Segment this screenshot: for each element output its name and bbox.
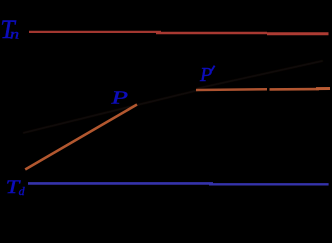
svg-text:P: P [110, 88, 128, 108]
P' level line right tip stroke [316, 87, 330, 90]
rising parcel path (orange diagonal to P) [25, 105, 137, 170]
svg-text:d: d [19, 184, 26, 198]
Td isotherm line (blue, right stroke) [209, 183, 329, 185]
Tn isotherm line (dark red, middle stroke) [156, 32, 267, 35]
P' level line segment 2 [270, 88, 320, 91]
svg-text:P: P [199, 64, 212, 86]
svg-text:n: n [10, 28, 19, 42]
label P' [199, 64, 215, 86]
Tn isotherm line (dark red, right stroke) [267, 32, 329, 35]
Tn isotherm line (dark red, left stroke) [29, 31, 161, 33]
P' level line segment 1 [196, 88, 267, 91]
label Td [6, 177, 26, 198]
Td isotherm line (blue, left stroke) [28, 182, 213, 185]
faint environment line right segment [197, 61, 323, 89]
label Tn [0, 15, 19, 44]
faint environment line left segment [23, 90, 199, 133]
